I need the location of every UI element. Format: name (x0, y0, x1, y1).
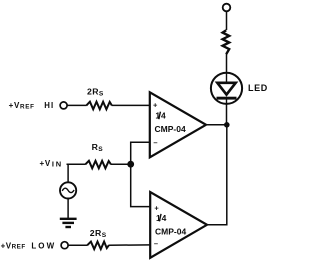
wire (right rail down to U2 output) (207, 125, 227, 225)
wire (Rs to VIN node) (111, 163, 131, 165)
terminal +VREF LOW (61, 242, 68, 249)
wire (stub down to source) (67, 164, 69, 182)
svg-text:+: + (153, 101, 158, 110)
svg-text:+VIN: +VIN (40, 159, 64, 169)
wire (226, 54, 228, 73)
wire (226, 11, 228, 30)
wire (68, 244, 87, 246)
resistor Rs (85, 161, 111, 169)
op-amp U1 (1/4 CMP-04) (150, 92, 206, 157)
svg-text:–: – (153, 138, 157, 147)
resistor 2Rs (bottom) (87, 242, 109, 250)
wire (source to ground) (67, 198, 69, 218)
wire (U1 - input L-wire to VIN node) (131, 142, 150, 164)
source VIN (sine generator) (60, 182, 76, 198)
wire (VIN node down to U2 + input) (131, 164, 150, 206)
wire (VIN horizontal) (67, 163, 86, 165)
wire (LED cathode down to junction) (226, 104, 228, 125)
wire (2Rs to U1 +) (112, 104, 150, 106)
op-amp U2 (1/4 CMP-04) (150, 192, 207, 258)
LED D1 (211, 73, 242, 104)
wire (67, 104, 87, 106)
svg-text:LED: LED (248, 83, 268, 93)
svg-text:CMP-04: CMP-04 (155, 124, 186, 134)
wire (2Rs to U2 - input) (109, 244, 151, 246)
wire (U1 output to junction) (206, 124, 227, 126)
svg-text:+: + (154, 203, 159, 212)
node VIN (junction dot) (127, 161, 134, 168)
ground (60, 219, 77, 227)
svg-text:CMP-04: CMP-04 (155, 226, 186, 236)
terminal +VREF HI (60, 102, 67, 109)
svg-text:+VREFHI: +VREFHI (9, 101, 55, 110)
terminal (output node, top) (223, 4, 231, 12)
resistor 2Rs (top) (86, 102, 111, 110)
resistor (LED pull-up, vertical) (223, 30, 230, 54)
svg-text:–: – (154, 239, 158, 248)
junction node (op-amp U1 output / LED) (224, 122, 230, 128)
